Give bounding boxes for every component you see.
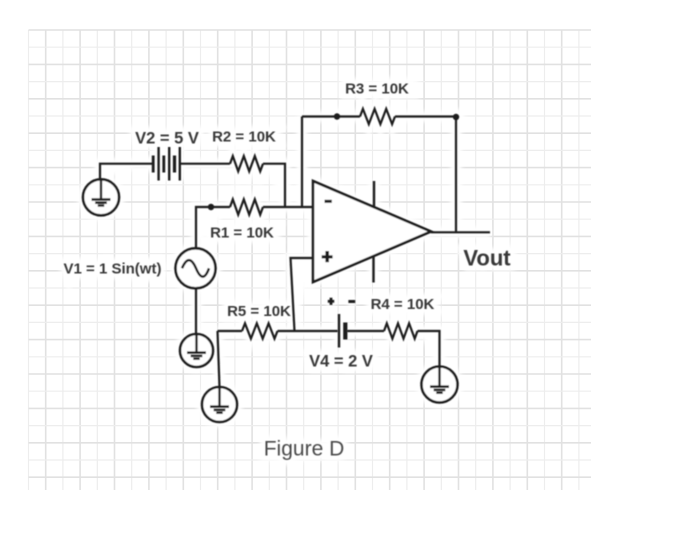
svg-text:V1 = 1 Sin(wt): V1 = 1 Sin(wt) (64, 261, 162, 278)
svg-text:R5 = 10K: R5 = 10K (227, 303, 291, 320)
svg-text:V2 = 5 V: V2 = 5 V (135, 130, 199, 148)
svg-text:R3 = 10K: R3 = 10K (345, 81, 409, 98)
svg-text:R4 = 10K: R4 = 10K (371, 296, 435, 313)
svg-text:Vout: Vout (463, 246, 511, 271)
svg-text:V4 = 2 V: V4 = 2 V (309, 353, 373, 371)
svg-text:R2 = 10K: R2 = 10K (212, 129, 276, 146)
svg-text:R1 = 10K: R1 = 10K (210, 225, 274, 242)
svg-text:Figure D: Figure D (264, 438, 345, 461)
